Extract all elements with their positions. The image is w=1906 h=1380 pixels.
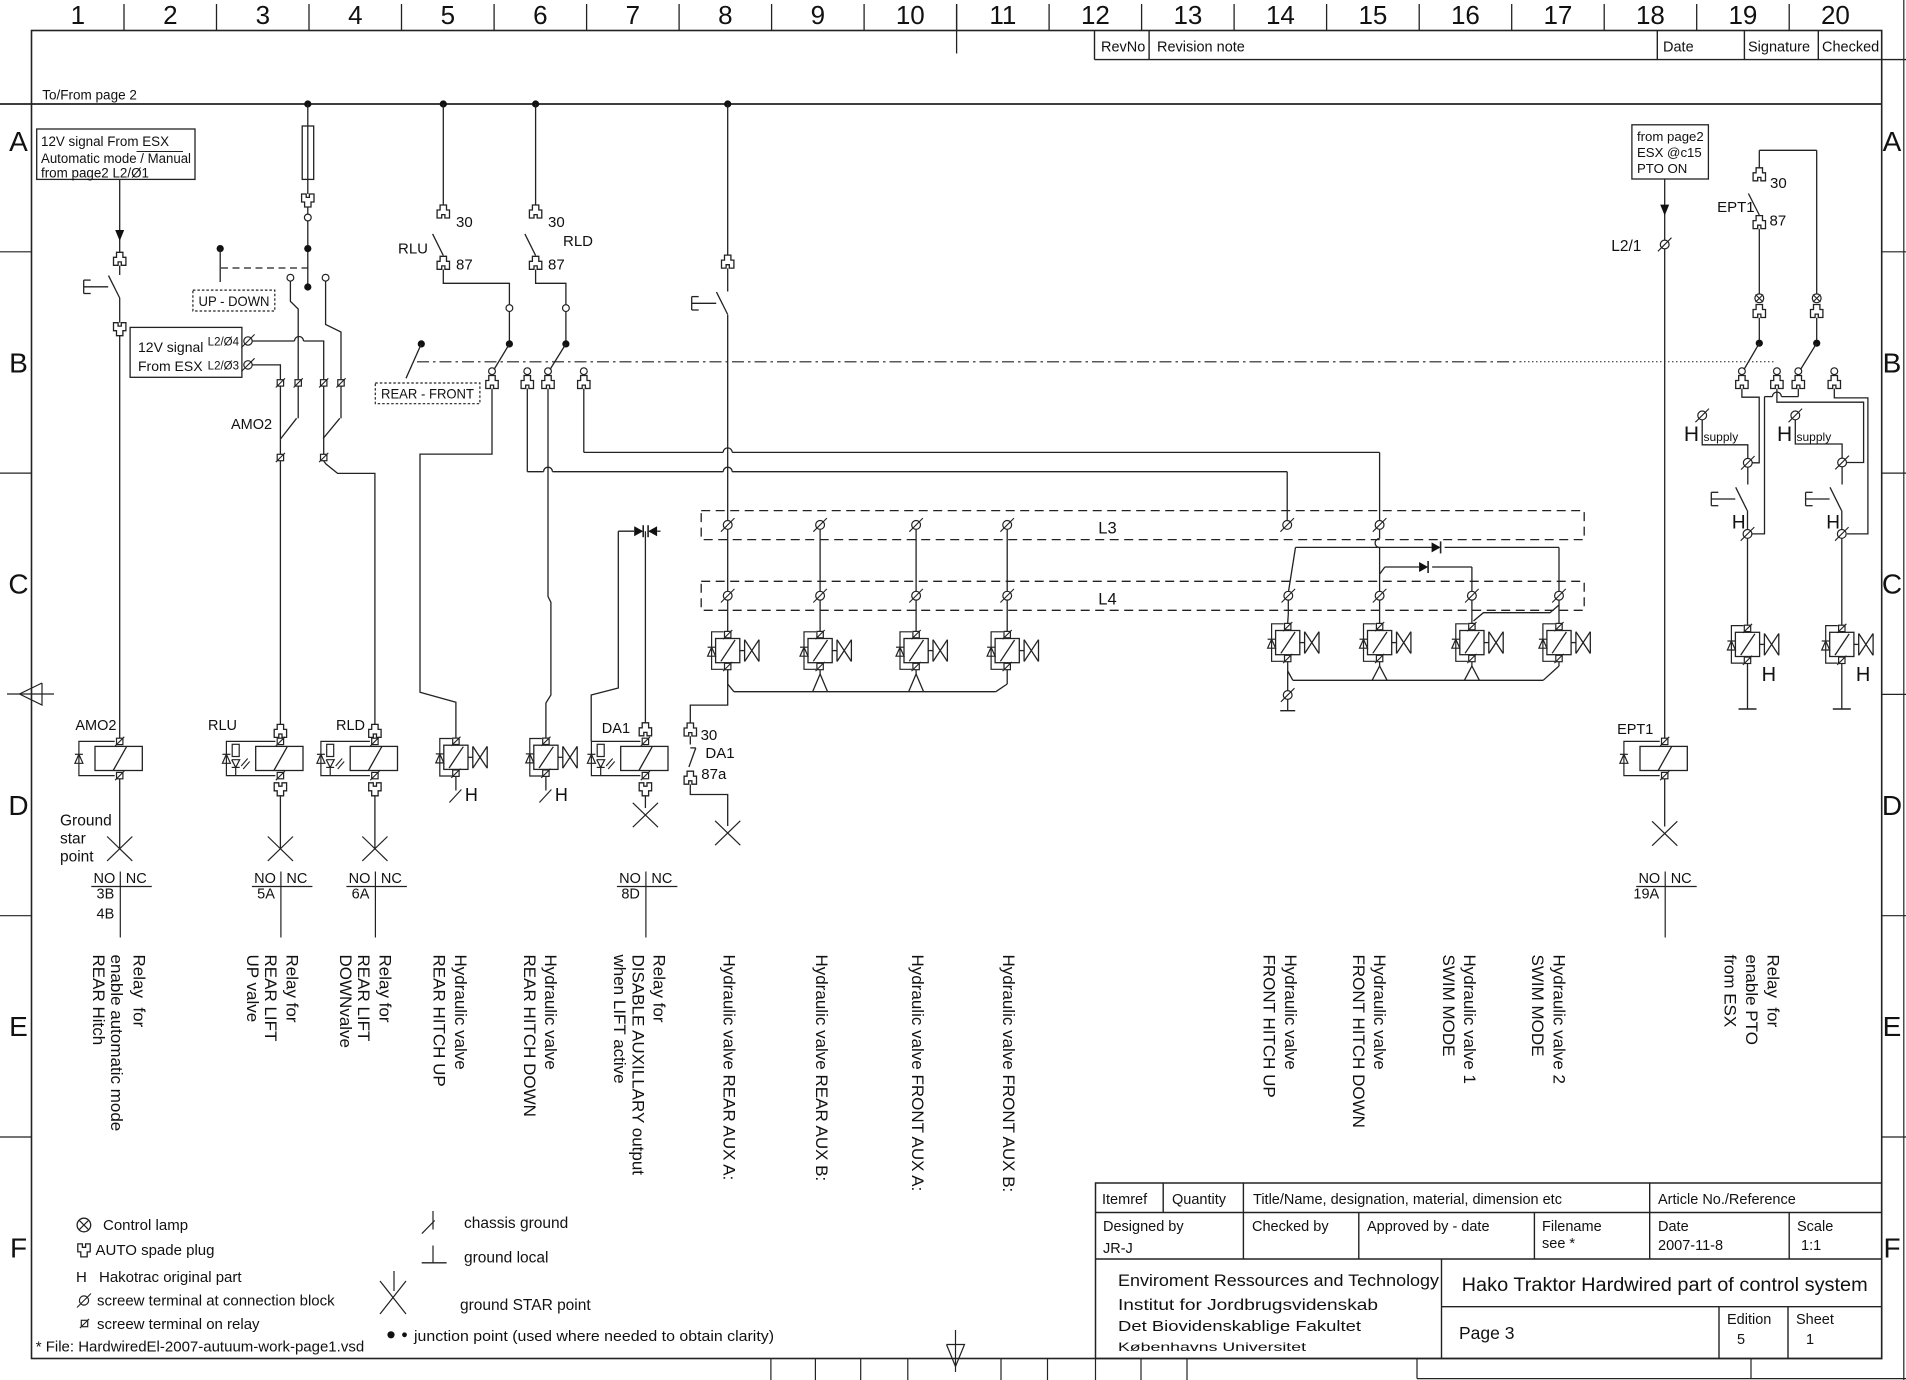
svg-text:Relay for: Relay for: [283, 955, 302, 1023]
svg-text:From ESX: From ESX: [138, 358, 203, 374]
svg-text:13: 13: [1173, 0, 1202, 30]
connector block L3: [701, 511, 1584, 540]
lamp spade connector left: [1755, 294, 1764, 303]
svg-text:AMO2: AMO2: [75, 718, 116, 734]
svg-text:C: C: [8, 569, 28, 600]
svg-text:8D: 8D: [621, 887, 640, 903]
wire throw2 to FRONT HITCH UP valve: [526, 389, 528, 472]
bottom centre mark: [955, 1330, 957, 1372]
svg-text:NO: NO: [619, 871, 641, 887]
svg-text:Checked: Checked: [1822, 40, 1879, 56]
hydraulic valve H 2: [1839, 625, 1845, 631]
EPT1 spade 30: [1753, 168, 1765, 181]
svg-text:Signature: Signature: [1748, 40, 1810, 56]
svg-text:Hydraulic valve 2: Hydraulic valve 2: [1549, 955, 1568, 1084]
RLU contact blade: [433, 234, 444, 256]
hydraulic valve SWIM MODE 1: [1469, 623, 1475, 629]
lamp spade connector right: [1812, 294, 1821, 303]
diode pair to DA1 coil: [618, 530, 634, 532]
svg-text:L2/Ø3: L2/Ø3: [208, 361, 239, 373]
AMO2 ground star point wire: [119, 779, 121, 849]
RLU contact 30 wire: [442, 104, 444, 205]
svg-text:NO: NO: [94, 871, 116, 887]
svg-text:see *: see *: [1542, 1236, 1575, 1252]
svg-text:87: 87: [548, 257, 565, 274]
selector blade RLU side: [494, 344, 509, 370]
hydraulic valve REAR AUX B: [817, 631, 823, 637]
svg-text:2007-11-8: 2007-11-8: [1658, 1238, 1723, 1254]
UP contact wire: [290, 281, 298, 379]
svg-text:ground STAR point: ground STAR point: [460, 1297, 591, 1314]
svg-text:H: H: [465, 785, 478, 805]
svg-text:EPT1: EPT1: [1717, 199, 1755, 216]
svg-text:Relay for: Relay for: [650, 955, 669, 1023]
spade plug aux switch: [722, 255, 734, 268]
tap from FRONT HITCH DOWN wire with diode D2: [1380, 567, 1385, 574]
svg-text:NO: NO: [349, 871, 371, 887]
hydraulic valve FRONT AUX B: [1004, 631, 1010, 637]
L3 screw terminals: [723, 521, 732, 530]
svg-text:L3: L3: [1098, 520, 1116, 538]
svg-text:Quantity: Quantity: [1172, 1192, 1227, 1208]
svg-text:from page2 L2/Ø1: from page2 L2/Ø1: [41, 166, 149, 181]
legend ground local: [432, 1246, 434, 1263]
svg-text:PTO ON: PTO ON: [1637, 161, 1687, 176]
DA1 NC contact blade: [689, 736, 691, 744]
svg-text:6: 6: [533, 0, 547, 30]
svg-text:12V signal From ESX: 12V signal From ESX: [41, 134, 169, 149]
svg-text:REAR Hitch: REAR Hitch: [89, 955, 108, 1046]
REAR HITCH UP chassis ground: [455, 777, 457, 791]
title block frame: [1096, 1183, 1882, 1359]
AMO2 contact A: [279, 386, 281, 439]
svg-text:supply: supply: [1797, 430, 1832, 444]
svg-text:RLU: RLU: [398, 241, 428, 258]
RLU coil bottom spade: [274, 783, 286, 796]
svg-text:NC: NC: [651, 871, 672, 887]
svg-text:4B: 4B: [97, 906, 115, 922]
wire throw1 to REAR HITCH UP valve: [420, 389, 492, 738]
svg-text:junction point (used where nee: junction point (used where needed to obt…: [413, 1328, 774, 1345]
H supply 1: [1698, 411, 1707, 420]
svg-text:5: 5: [441, 0, 455, 30]
svg-text:1:1: 1:1: [1801, 1238, 1821, 1254]
DA1 contact spade 87a: [684, 771, 696, 784]
svg-text:NO: NO: [1638, 871, 1660, 887]
aux valves ground interconnect: [727, 670, 729, 684]
svg-text:10: 10: [896, 0, 925, 30]
svg-text:Hydraulic valve REAR AUX A:: Hydraulic valve REAR AUX A:: [720, 955, 739, 1181]
svg-text:C: C: [1882, 569, 1902, 600]
svg-text:Title/Name, designation, mater: Title/Name, designation, material, dimen…: [1253, 1192, 1562, 1208]
svg-text:19A: 19A: [1633, 887, 1659, 903]
svg-text:Hydraulic valve 1: Hydraulic valve 1: [1460, 955, 1479, 1084]
svg-text:screew terminal at connection: screew terminal at connection block: [97, 1293, 335, 1310]
hydraulic valve FRONT HITCH DOWN: [1376, 623, 1382, 629]
svg-text:REAR HITCH UP: REAR HITCH UP: [430, 955, 449, 1087]
legend screw terminal on relay: [81, 1320, 87, 1326]
spade plug lower left: [114, 323, 126, 336]
svg-text:Itemref: Itemref: [1102, 1192, 1148, 1208]
svg-text:Hydraulic valve: Hydraulic valve: [1281, 955, 1300, 1070]
svg-text:screew terminal on relay: screew terminal on relay: [97, 1316, 260, 1333]
svg-text:EPT1: EPT1: [1617, 722, 1653, 738]
selector blade FRONT HITCH UP: [1289, 547, 1296, 591]
UP-DOWN label box: [193, 290, 275, 311]
top centre mark: [956, 4, 958, 54]
legend control lamp: [77, 1218, 91, 1232]
outer paper border right: [1903, 0, 1905, 1380]
wire L2/1 down: [1664, 179, 1666, 240]
EPT1 contact blade: [1748, 194, 1759, 216]
wire L2/O4 to AMO2 contact: [252, 340, 294, 342]
junction on bus col8: [724, 100, 731, 107]
svg-text:Hydraulic valve FRONT AUX B:: Hydraulic valve FRONT AUX B:: [999, 955, 1018, 1193]
svg-text:19: 19: [1728, 0, 1757, 30]
H manual contact 2: [1841, 467, 1843, 485]
svg-text:Article No./Reference: Article No./Reference: [1658, 1192, 1796, 1208]
svg-text:12: 12: [1081, 0, 1110, 30]
svg-text:AMO2: AMO2: [231, 417, 272, 433]
svg-text:Enviroment Ressources and Tech: Enviroment Ressources and Technology: [1118, 1271, 1440, 1290]
svg-text:H: H: [1777, 423, 1792, 446]
svg-text:Edition: Edition: [1727, 1312, 1771, 1328]
selector throw spades rear-front: [489, 368, 496, 375]
RLU spade 87: [437, 256, 449, 269]
svg-text:Hydraulic valve FRONT AUX A:: Hydraulic valve FRONT AUX A:: [908, 955, 927, 1192]
DOWN contact wire: [326, 281, 341, 379]
wire diode pair left branch: [591, 531, 618, 741]
screw terminal contact1 output: [1743, 530, 1752, 539]
wire throw3 to REAR HITCH DOWN valve: [546, 389, 551, 738]
hydraulic valve H 1: [1744, 625, 1750, 631]
svg-text:1: 1: [71, 0, 85, 30]
interlock wire with diode D1: [1296, 546, 1432, 548]
svg-text:A: A: [1883, 126, 1902, 157]
screw terminal contact2 input: [1838, 458, 1847, 467]
svg-text:Page 3: Page 3: [1459, 1323, 1514, 1343]
svg-text:A: A: [9, 126, 28, 157]
H valve1 local ground: [1747, 664, 1749, 709]
svg-text:REAR HITCH DOWN: REAR HITCH DOWN: [520, 955, 539, 1117]
svg-text:Københavns Universitet: Københavns Universitet: [1118, 1340, 1307, 1354]
svg-text:17: 17: [1543, 0, 1572, 30]
RLD spade 87: [529, 256, 541, 269]
swim valves tie wire: [1474, 605, 1560, 621]
svg-text:87a: 87a: [701, 766, 727, 783]
hydraulic valve FRONT AUX A: [913, 631, 919, 637]
source box 12V signal L2 terminals: [130, 327, 242, 377]
svg-text:30: 30: [701, 727, 718, 744]
wire AMO2 contact B to RLD coil: [324, 461, 375, 724]
svg-text:RLD: RLD: [336, 718, 365, 734]
RLD coil bottom spade: [369, 783, 381, 796]
svg-text:4: 4: [348, 0, 362, 30]
svg-text:REAR LIFT: REAR LIFT: [354, 955, 373, 1042]
L4 screw terminals: [723, 591, 732, 600]
svg-text:D: D: [1882, 790, 1902, 821]
svg-text:18: 18: [1636, 0, 1665, 30]
H supply 2: [1791, 411, 1800, 420]
wire L2/O3 to AMO2 contact: [252, 365, 280, 380]
spade plug under fuse: [302, 194, 314, 207]
svg-text:Relay for: Relay for: [376, 955, 395, 1023]
svg-text:DA1: DA1: [602, 721, 630, 737]
UP-DOWN mechanical dashed link: [221, 267, 308, 269]
wires L3 to aux valves: [727, 530, 729, 592]
right valves ground interconnect: [1287, 662, 1289, 690]
hydraulic valve SWIM MODE 2: [1556, 623, 1562, 629]
wire throw4 to FRONT HITCH DOWN valve: [583, 389, 585, 453]
svg-text:2: 2: [163, 0, 177, 30]
svg-text:20: 20: [1821, 0, 1850, 30]
svg-text:NC: NC: [1671, 871, 1692, 887]
EPT1 contact top link: [1759, 149, 1816, 151]
joystick UP-DOWN lever: [217, 245, 224, 252]
svg-text:from ESX: from ESX: [1721, 955, 1740, 1028]
svg-text:Revision note: Revision note: [1157, 40, 1245, 56]
AMO2 contact B: [323, 386, 325, 438]
svg-text:Hydraulic valve: Hydraulic valve: [541, 955, 560, 1070]
svg-text:point: point: [60, 849, 94, 866]
svg-text:6A: 6A: [352, 887, 370, 903]
svg-text:SWIM MODE: SWIM MODE: [1439, 955, 1458, 1057]
svg-text:3B: 3B: [97, 887, 115, 903]
junction on bus col3: [304, 100, 311, 107]
legend AUTO spade plug: [78, 1244, 90, 1257]
svg-text:Scale: Scale: [1797, 1219, 1833, 1235]
screw terminal L2/O4: [244, 337, 252, 345]
svg-text:SWIM MODE: SWIM MODE: [1528, 955, 1547, 1057]
connector block L4: [701, 581, 1584, 610]
svg-text:E: E: [9, 1011, 28, 1042]
svg-text:D: D: [8, 790, 28, 821]
svg-text:Hakotrac original part: Hakotrac original part: [99, 1269, 242, 1286]
mechanical dash-dot link row B: [417, 361, 1520, 363]
DA1 contact spade 30: [684, 723, 696, 736]
svg-text:NO: NO: [254, 871, 276, 887]
screw terminal L2/O3: [244, 361, 252, 369]
hydraulic valve REAR HITCH UP: [453, 738, 459, 744]
wire from source box: [119, 179, 121, 252]
svg-text:Filename: Filename: [1542, 1219, 1602, 1235]
svg-text:H: H: [76, 1269, 87, 1286]
hydraulic valve FRONT HITCH UP: [1285, 623, 1291, 629]
svg-text:B: B: [1883, 347, 1902, 378]
box from page2 ESX c15 PTO ON: [1632, 125, 1709, 179]
wire aux switch down to L3: [727, 315, 729, 521]
svg-text:DOWNvalve: DOWNvalve: [336, 955, 355, 1049]
svg-text:Date: Date: [1658, 1219, 1689, 1235]
H manual contact 1: [1747, 467, 1749, 484]
wire spade2 to H contact2 input: [1777, 389, 1864, 463]
svg-text:DISABLE AUXILLARY output: DISABLE AUXILLARY output: [628, 955, 647, 1176]
REAR-FRONT joystick lever: [418, 340, 425, 347]
svg-text:F: F: [1883, 1233, 1900, 1264]
svg-text:NC: NC: [286, 871, 307, 887]
REAR HITCH DOWN chassis ground: [545, 777, 547, 791]
svg-text:supply: supply: [1704, 430, 1739, 444]
svg-text:RevNo: RevNo: [1101, 40, 1145, 56]
REAR-FRONT label box: [375, 383, 480, 404]
RLD contact blade: [525, 234, 536, 256]
RLD contact 30 wire: [535, 104, 537, 205]
wire below switch S1: [119, 298, 121, 323]
svg-text:Hydraulic valve: Hydraulic valve: [451, 955, 470, 1070]
svg-text:RLD: RLD: [563, 233, 593, 250]
svg-text:RLU: RLU: [208, 718, 237, 734]
svg-text:16: 16: [1451, 0, 1480, 30]
svg-text:AUTO spade plug: AUTO spade plug: [96, 1242, 215, 1259]
svg-text:H: H: [1762, 664, 1776, 686]
svg-text:87: 87: [1770, 213, 1787, 230]
svg-text:Hydraulic valve: Hydraulic valve: [1370, 955, 1389, 1070]
svg-text:Approved by - date: Approved by - date: [1367, 1219, 1490, 1235]
svg-text:12V signal: 12V signal: [138, 339, 203, 355]
svg-text:15: 15: [1358, 0, 1387, 30]
svg-text:REAR LIFT: REAR LIFT: [261, 955, 280, 1042]
bus To/From page 2: [0, 103, 1882, 105]
source box 12V signal From ESX Automatic mode: [37, 129, 195, 179]
svg-text:1: 1: [1806, 1332, 1814, 1348]
svg-text:L2/Ø4: L2/Ø4: [208, 337, 240, 349]
svg-text:Sheet: Sheet: [1796, 1312, 1834, 1328]
svg-text:UP valve: UP valve: [243, 955, 262, 1023]
PTO selector blades: [1744, 343, 1759, 369]
legend chassis ground: [432, 1211, 434, 1230]
svg-text:Institut for Jordbrugsvidenska: Institut for Jordbrugsvidenskab: [1118, 1297, 1378, 1314]
UP-DOWN pole dot: [304, 283, 311, 290]
svg-text:chassis ground: chassis ground: [464, 1215, 568, 1232]
selector blade RLD side: [550, 344, 566, 370]
svg-text:L2/1: L2/1: [1611, 238, 1641, 255]
svg-text:Hako Traktor Hardwired part of: Hako Traktor Hardwired part of control s…: [1462, 1275, 1868, 1296]
svg-text:Ground: Ground: [60, 813, 112, 830]
svg-text:NC: NC: [126, 871, 147, 887]
wire 87a to ground star: [690, 784, 727, 826]
wire bus to fuse: [307, 104, 309, 126]
legend junction point: [387, 1331, 394, 1338]
svg-text:Relay for: Relay for: [1763, 955, 1782, 1028]
RLU spade 30: [437, 205, 449, 218]
hydraulic valve REAR HITCH DOWN: [543, 738, 549, 744]
EPT1 spade 87: [1753, 216, 1765, 229]
FRONT HITCH UP local ground: [1283, 691, 1292, 700]
svg-text:87: 87: [456, 257, 473, 274]
svg-text:UP - DOWN: UP - DOWN: [199, 293, 270, 309]
svg-text:Hydraulic valve REAR AUX B:: Hydraulic valve REAR AUX B:: [812, 955, 831, 1182]
svg-text:FRONT HITCH DOWN: FRONT HITCH DOWN: [1349, 955, 1368, 1128]
svg-text:REAR - FRONT: REAR - FRONT: [381, 386, 474, 402]
row boundary ticks right: [1882, 251, 1906, 253]
svg-text:3: 3: [256, 0, 270, 30]
svg-text:H: H: [1732, 513, 1746, 534]
wire diode pair to DA1 coil top: [644, 531, 646, 723]
DOWN contact throw circle: [322, 274, 329, 281]
wire spade3 to contact1 output: [1797, 389, 1799, 397]
svg-text:Date: Date: [1663, 40, 1694, 56]
wire AMO2 contact A to RLU coil: [279, 461, 281, 724]
svg-text:Control lamp: Control lamp: [103, 1217, 188, 1234]
wire spade1 to H contact1 input: [1742, 389, 1759, 463]
junction on bus col6: [532, 100, 539, 107]
wire bus to aux switch: [727, 104, 729, 255]
DA1 coil bottom spade: [639, 783, 651, 796]
row boundary ticks left: [0, 251, 32, 253]
H valve2 local ground: [1841, 664, 1843, 709]
bottom right outer border: [1416, 1359, 1418, 1379]
svg-text:Relay for: Relay for: [130, 955, 149, 1028]
PTO selector poles: [1756, 340, 1763, 347]
hydraulic valve REAR AUX A: [725, 631, 731, 637]
legend ground STAR point: [393, 1271, 395, 1291]
manual switch S1: [119, 266, 121, 276]
wire to AMO2 coil: [119, 336, 121, 738]
wire FRONT HITCH DOWN hop: [1379, 530, 1381, 539]
svg-text:8: 8: [718, 0, 732, 30]
connector circle under fuse: [307, 207, 309, 214]
svg-text:30: 30: [456, 214, 473, 231]
svg-text:H: H: [1826, 513, 1840, 534]
PTO selector throw spades: [1739, 368, 1746, 375]
svg-text:DA1: DA1: [705, 745, 734, 762]
wire RLD 87 to selector pole: [536, 270, 566, 305]
svg-text:Checked by: Checked by: [1252, 1219, 1329, 1235]
revision header row: [1094, 31, 1096, 60]
left centre mark arrow: [7, 693, 54, 695]
svg-text:FRONT HITCH UP: FRONT HITCH UP: [1260, 955, 1279, 1098]
svg-text:JR-J: JR-J: [1103, 1241, 1133, 1257]
svg-text:14: 14: [1266, 0, 1295, 30]
wire RLU 87 to selector pole: [443, 270, 509, 305]
junction on bus col5: [440, 100, 447, 107]
manual switch REAR AUX: [727, 268, 729, 291]
screw terminal contact2 output: [1837, 530, 1846, 539]
wire REAR AUX A valve to DA1 contact: [690, 670, 727, 723]
svg-text:enable automatic mode: enable automatic mode: [107, 955, 126, 1132]
svg-text:30: 30: [1770, 175, 1787, 192]
svg-text:NC: NC: [381, 871, 402, 887]
svg-text:30: 30: [548, 214, 565, 231]
svg-text:5A: 5A: [257, 887, 275, 903]
svg-text:H: H: [555, 785, 568, 805]
screw terminal L2/1: [1660, 240, 1669, 249]
svg-text:* File: HardwiredEl-2007-autuu: * File: HardwiredEl-2007-autuum-work-pag…: [36, 1339, 364, 1356]
relay terminal row AMO2 contacts: [277, 380, 283, 386]
svg-text:Designed by: Designed by: [1103, 1219, 1184, 1235]
svg-text:when LIFT active: when LIFT active: [610, 954, 629, 1084]
svg-text:B: B: [9, 347, 28, 378]
svg-text:star: star: [60, 831, 86, 848]
svg-text:Automatic mode / Manual: Automatic mode / Manual: [41, 151, 191, 166]
bottom scale ticks: [770, 1359, 772, 1380]
svg-text:F: F: [10, 1233, 27, 1264]
svg-text:H: H: [1856, 664, 1870, 686]
screw terminal contact1 input: [1743, 458, 1752, 467]
wires L4 to right valves: [1287, 600, 1289, 614]
svg-text:enable PTO: enable PTO: [1742, 955, 1761, 1045]
arrow down on wire: [115, 230, 124, 241]
spade plug upper left: [114, 252, 126, 265]
legend screw terminal at connection block: [79, 1296, 88, 1305]
svg-text:from page2: from page2: [1637, 129, 1704, 144]
svg-text:H: H: [1684, 423, 1699, 446]
svg-text:ESX @c15: ESX @c15: [1637, 145, 1702, 160]
wire spade4 to contact2 output: [1834, 389, 1868, 534]
RLD spade 30: [529, 205, 541, 218]
fuse F1: [302, 126, 314, 179]
UP contact throw circle: [287, 274, 294, 281]
